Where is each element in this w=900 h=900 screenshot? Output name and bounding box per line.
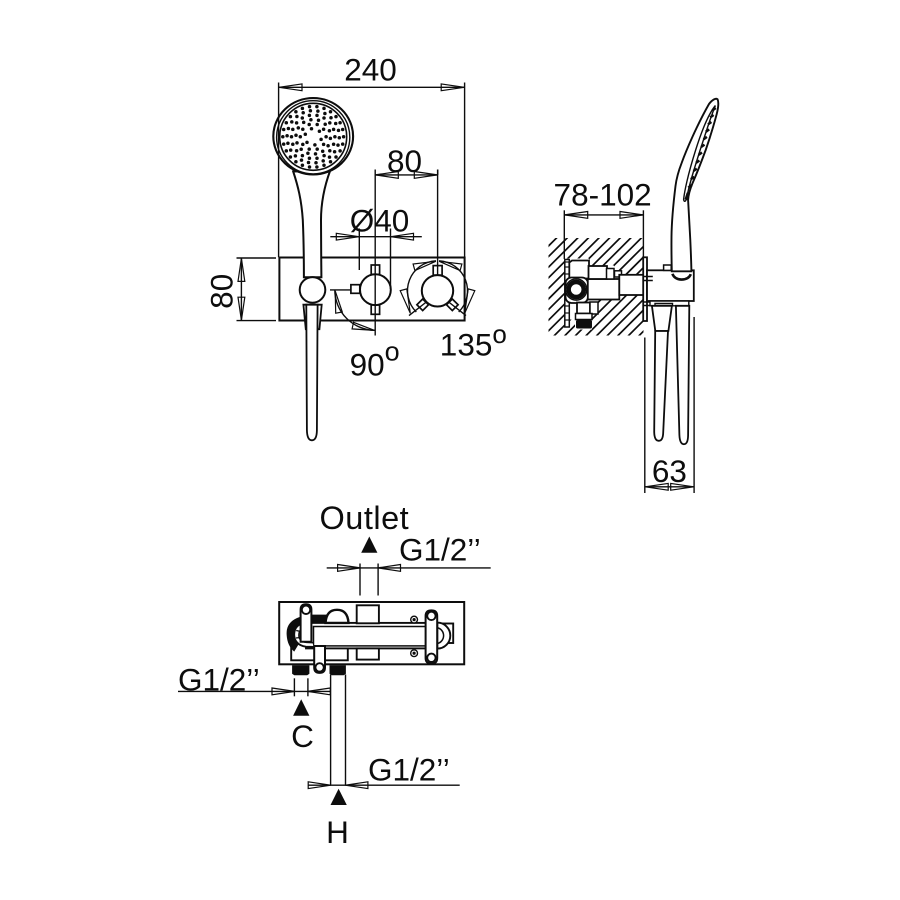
temperature knob radial stops xyxy=(409,302,427,316)
holder bottom lip xyxy=(650,301,689,306)
cartridge dome (top view) xyxy=(326,610,349,623)
temperature knob centerline xyxy=(437,170,439,276)
svg-text:63: 63 xyxy=(652,453,687,489)
valve upper mid block xyxy=(589,266,608,279)
lower port square xyxy=(357,648,379,659)
diverter knob xyxy=(360,274,391,305)
outlet dimension G1/2 xyxy=(359,564,361,596)
hand shower spray dashes xyxy=(686,108,716,200)
svg-text:80: 80 xyxy=(387,143,422,179)
C dimension G1/2 xyxy=(293,678,295,696)
small top stub xyxy=(615,271,622,277)
shower hose (front) xyxy=(306,305,317,441)
wall outlet stubs xyxy=(644,276,653,278)
H dimension G1/2 xyxy=(308,784,460,786)
dimension 240 xyxy=(278,83,280,258)
holder top notch xyxy=(664,265,672,270)
right end collar xyxy=(437,623,450,649)
hose (side, front strand) xyxy=(654,331,668,441)
dimension 78-102 xyxy=(563,210,565,259)
right mounting ear xyxy=(426,610,438,663)
svg-text:240: 240 xyxy=(344,52,397,88)
lower mounting ear xyxy=(314,646,325,673)
svg-text:H: H xyxy=(326,814,349,850)
escutcheon plate xyxy=(643,257,647,321)
90-deg arc arrowheads xyxy=(335,291,342,313)
svg-text:G1/2’’: G1/2’’ xyxy=(178,662,260,698)
svg-text:90o: 90o xyxy=(350,336,400,382)
135-deg arc arrowheads xyxy=(413,261,436,270)
svg-text:135o: 135o xyxy=(440,319,507,363)
inlet elbow pipe xyxy=(294,623,314,647)
hand shower face plate line xyxy=(684,106,716,202)
135-deg swing arcs xyxy=(407,261,436,312)
hot inlet nipple (black) xyxy=(330,665,346,675)
dimension dia 40 xyxy=(358,229,360,271)
valve cartridge housing xyxy=(566,278,589,304)
valve spindle housing xyxy=(619,275,643,295)
temperature knob rotated tabs xyxy=(417,299,429,311)
diverter knob tabs xyxy=(371,265,379,274)
bracket ball joint xyxy=(300,277,326,303)
left support block xyxy=(291,645,348,661)
handle end cap in holder xyxy=(672,274,690,280)
svg-text:78-102: 78-102 xyxy=(554,176,652,212)
temperature knob tab xyxy=(433,266,442,276)
hose (side, rear strand) xyxy=(676,306,689,444)
temperature knob xyxy=(422,275,453,306)
svg-text:Ø40: Ø40 xyxy=(350,203,410,239)
left mounting ear xyxy=(301,604,312,642)
hand shower handle (front) xyxy=(293,171,330,278)
svg-text:Outlet: Outlet xyxy=(320,500,410,536)
right end fitting square xyxy=(441,624,453,644)
concealed valve silhouette xyxy=(565,259,644,330)
svg-text:C: C xyxy=(291,718,314,754)
wall plate (front view) xyxy=(279,258,464,321)
svg-text:G1/2’’: G1/2’’ xyxy=(368,751,450,787)
hose collar xyxy=(303,305,321,330)
valve body bar xyxy=(306,623,437,649)
outlet flow triangle xyxy=(361,537,377,553)
hot inlet pipe lines xyxy=(330,675,332,786)
outlet port square xyxy=(357,605,379,623)
rough-in box (top view) xyxy=(279,602,464,664)
valve main body xyxy=(588,279,620,300)
valve bottom cap (black) xyxy=(576,320,592,329)
dimension 80 horizontal xyxy=(374,170,376,336)
valve top block xyxy=(569,261,589,279)
shower holder body xyxy=(647,270,694,301)
C flow triangle xyxy=(293,699,309,716)
hose cone connector xyxy=(652,306,672,331)
dimension 63 xyxy=(644,338,646,494)
cartridge ring xyxy=(566,279,587,300)
H flow triangle xyxy=(331,789,347,805)
valve back plate xyxy=(565,260,570,328)
valve lower blocks xyxy=(577,303,590,314)
hand shower head (front view) xyxy=(273,98,353,174)
dimension 80 vertical xyxy=(237,257,277,259)
hand shower (side view) xyxy=(671,99,718,272)
svg-text:80: 80 xyxy=(204,274,240,309)
svg-text:G1/2’’: G1/2’’ xyxy=(399,532,481,568)
90-deg swing arc xyxy=(335,290,376,331)
cold inlet nipple (black) xyxy=(292,665,309,675)
bar screw bosses xyxy=(411,616,418,623)
cartridge elbow cap (black) xyxy=(287,615,327,652)
spray face nozzle dots xyxy=(281,105,345,169)
